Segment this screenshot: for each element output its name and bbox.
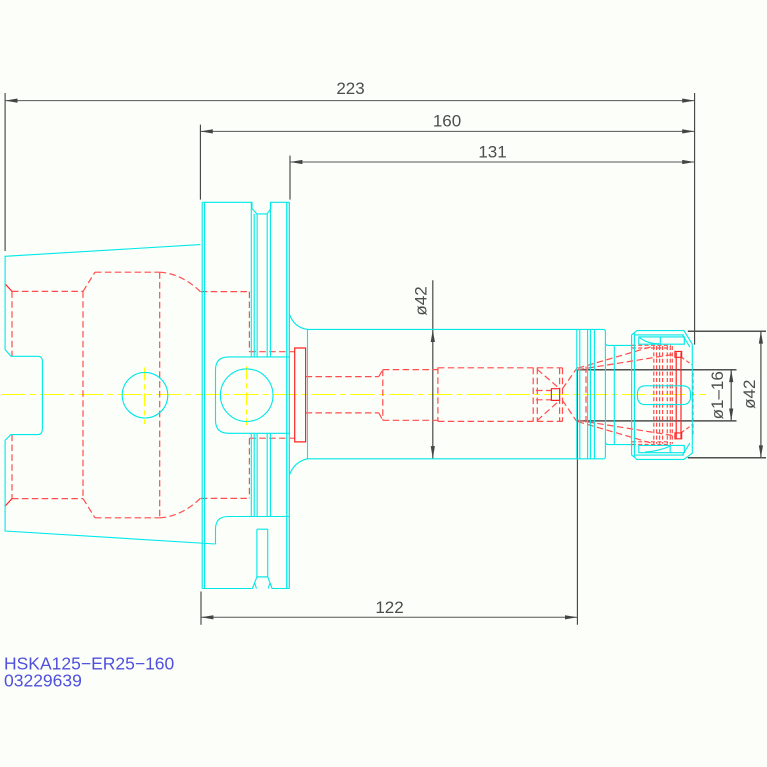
cavity vertical at flange bore top	[248, 292, 250, 352]
drive slot	[255, 529, 270, 588]
collet nose step top	[675, 351, 682, 357]
nut left inner vertical	[633, 333, 635, 458]
svg-text:122: 122	[375, 598, 403, 617]
dimension line dia42 right	[759, 331, 763, 458]
cavity chamfer solid top	[5, 284, 12, 292]
dimension 122 extension line left	[200, 592, 202, 625]
fillet top	[289, 314, 307, 330]
bore end vertical pair	[533, 368, 537, 422]
dimension line 223	[5, 99, 695, 103]
cavity bore through flange top	[201, 291, 250, 293]
thread hole red solid rect	[551, 389, 559, 401]
cavity vertical large end	[159, 272, 161, 518]
bore step 1 chamfers	[379, 370, 383, 421]
collet front cone top diagonal	[578, 354, 676, 370]
centerline vertical at bolt circle	[246, 366, 248, 425]
thread hole top	[536, 390, 551, 392]
cavity bottom horizontal small bore	[12, 498, 83, 500]
cavity bottom step diagonal	[83, 499, 95, 518]
thread hole bottom	[536, 399, 551, 401]
centerline main horizontal	[1, 394, 705, 396]
bore step 1 vertical	[382, 370, 384, 421]
collet taper top diagonal	[578, 346, 654, 368]
collet thread row top	[632, 347, 669, 349]
coolant tube red solid rect	[295, 348, 306, 442]
body end face	[604, 329, 606, 458]
dimension 122 extension line right	[576, 370, 578, 625]
flange left face	[202, 202, 204, 588]
centerline vertical at taper hole	[144, 367, 146, 424]
dimension line dia1-16	[729, 370, 733, 421]
bore A top	[306, 376, 379, 378]
collet nose vertical	[692, 373, 694, 436]
bore C bottom	[438, 420, 563, 422]
body end ring verticals	[577, 329, 595, 458]
collet crest bottom	[632, 444, 671, 446]
taper side hole circle	[122, 372, 168, 418]
collet nose step bottom	[675, 433, 682, 439]
neck top edge	[605, 343, 631, 346]
nut wrench band bottom arc	[645, 446, 670, 452]
bore B bottom	[383, 419, 438, 421]
dimension line 122	[201, 615, 577, 619]
flange bottom face with slot chamfers	[202, 577, 289, 589]
hidden cavity outline red dashed	[12, 272, 295, 518]
collet crest top	[632, 344, 671, 346]
cavity top large bore	[95, 271, 160, 273]
cavity bottom arc to flange	[160, 498, 201, 518]
neck bottom edge	[605, 442, 631, 445]
collet rear face	[585, 367, 587, 424]
cavity top horizontal small bore	[12, 290, 83, 292]
bore B top	[383, 369, 438, 371]
nut wrench band top arc	[640, 338, 660, 344]
collet front cone bottom diagonal	[578, 420, 676, 436]
dimension line dia42 body	[431, 280, 435, 458]
dimension 160 extension line	[199, 125, 201, 200]
nut inner chamfer lines	[683, 335, 690, 455]
body top edge	[308, 328, 604, 330]
nut inner horizontals	[635, 335, 684, 455]
dimension line 160	[200, 129, 694, 133]
bore C top	[438, 367, 563, 369]
cavity bore through flange bottom	[201, 497, 250, 499]
dimension 223 extension line left	[4, 93, 6, 251]
nut bore stadium	[638, 386, 691, 405]
nut wrench band top	[639, 337, 685, 344]
fillet bottom	[289, 459, 307, 476]
fillet tangent vertical	[307, 329, 309, 458]
svg-text:131: 131	[478, 142, 506, 161]
taper shank outline	[5, 245, 215, 544]
dia1-16 extension lines	[578, 370, 737, 421]
cavity top step diagonal	[83, 272, 95, 291]
collet nose diagonals	[681, 357, 693, 433]
collet thread row bottom	[632, 441, 669, 443]
collet ring verticals	[654, 346, 673, 444]
cavity vertical step face	[82, 291, 84, 498]
svg-text:ø42: ø42	[740, 380, 759, 409]
cavity top arc to flange	[160, 272, 201, 292]
bore step 2 vertical	[437, 368, 439, 422]
body bottom edge	[308, 458, 604, 460]
bore cone vertical pair	[560, 368, 563, 422]
cavity chamfer solid bottom	[5, 499, 12, 507]
dimension 131 extension line	[289, 156, 291, 200]
cavity vertical at flange bore bottom	[248, 438, 250, 498]
dimension line 131	[290, 160, 695, 164]
svg-text:ø42: ø42	[412, 286, 431, 315]
collet taper bottom diagonal	[578, 422, 654, 444]
svg-text:160: 160	[433, 112, 461, 131]
drive key pocket	[216, 357, 290, 433]
bore A bottom	[306, 412, 379, 414]
svg-text:ø1–16: ø1–16	[708, 371, 727, 419]
nut wrench band bottom	[639, 445, 685, 452]
collet front face verticals	[676, 352, 681, 438]
cavity vertical left small end bottom	[11, 435, 13, 499]
collet nut outline	[632, 331, 693, 460]
svg-text:03229639: 03229639	[4, 671, 82, 691]
flange top face with groove	[202, 202, 289, 214]
cavity bottom large bore	[95, 517, 160, 519]
taper recess step	[216, 517, 290, 545]
flange groove ring lines	[251, 202, 270, 516]
shared right extension line	[694, 93, 696, 345]
spindle bore red dashed	[306, 346, 676, 444]
flange right face	[287, 202, 290, 588]
bore shoulder bottom to red rect	[249, 437, 294, 439]
cavity vertical left small end top	[11, 291, 13, 356]
neck groove vertical	[613, 345, 615, 444]
dia42 right extension lines	[688, 331, 766, 458]
bolt hole circle	[220, 369, 273, 422]
bore shoulder top to red rect	[249, 351, 294, 353]
cone diagonals	[537, 367, 578, 423]
svg-text:223: 223	[336, 79, 364, 98]
